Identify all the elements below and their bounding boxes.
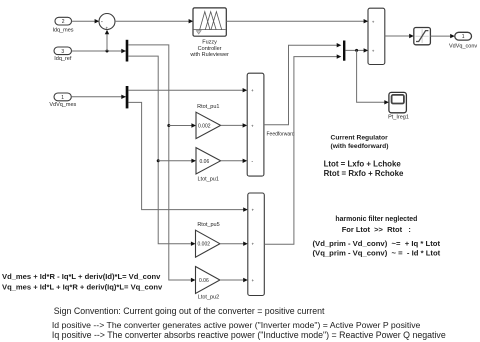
svg-text:0.06: 0.06 xyxy=(200,159,210,165)
wire bottom sum out to mux in2 xyxy=(264,54,341,244)
scope Pt_Ireg1 xyxy=(388,92,409,120)
svg-text:VdVq_conv: VdVq_conv xyxy=(449,43,477,49)
wire fuzzy to sum S2 xyxy=(226,19,368,23)
wire D1 out1 down to gain Ltot_pu2, junction to gain Rtot_pu1 xyxy=(128,45,196,282)
svg-text:Current Regulator: Current Regulator xyxy=(331,134,389,141)
wire gain Ltot_pu2 to bottom sum in3 xyxy=(220,278,248,282)
svg-text:Ltot = Lxfo + Lchoke: Ltot = Lxfo + Lchoke xyxy=(324,159,402,168)
svg-text:Vq_mes + Id*L + Iq*R + deriv(: Vq_mes + Id*L + Iq*R + deriv(Iq)*L= Vq_c… xyxy=(2,283,163,292)
svg-text:Rtot_pu1: Rtot_pu1 xyxy=(197,104,219,110)
svg-text:2: 2 xyxy=(62,19,65,25)
svg-text:Feedforward: Feedforward xyxy=(267,132,295,138)
gain Rtot_pu1 xyxy=(196,104,221,138)
svg-text:Pt_Ireg1: Pt_Ireg1 xyxy=(388,114,409,120)
svg-text:(Vq_prim - Vq_conv) ~ = - Id: (Vq_prim - Vq_conv) ~ = - Id * Ltot xyxy=(313,249,441,258)
svg-text:For Ltot >> Rtot :: For Ltot >> Rtot : xyxy=(342,225,411,234)
bottom sum block xyxy=(248,193,264,296)
inport 2 Idq_mes xyxy=(52,17,73,33)
svg-text:Iq positive --> The converter: Iq positive --> The converter absorbs re… xyxy=(52,330,446,340)
annotation sign convention xyxy=(52,306,446,340)
svg-text:(Vd_prim - Vd_conv) ~= + Iq: (Vd_prim - Vd_conv) ~= + Iq * Ltot xyxy=(313,239,441,248)
saturation block xyxy=(414,28,431,45)
svg-text:0.002: 0.002 xyxy=(198,242,211,248)
svg-text:+: + xyxy=(251,123,254,128)
wire D2 out2 down to bottom sum in1 xyxy=(128,102,247,211)
svg-text:-: - xyxy=(101,20,103,26)
svg-text:+: + xyxy=(372,48,375,53)
svg-text:with Ruleviewer: with Ruleviewer xyxy=(189,52,229,58)
wire gain Rtot_pu1 to feedforward sum in2 xyxy=(221,123,248,127)
demux D1 xyxy=(126,40,129,62)
svg-text:Ltot_pu1: Ltot_pu1 xyxy=(197,176,218,182)
wire D1 out2 down to gain Rtot_pu5, junction to gain Ltot_pu1 xyxy=(128,56,196,246)
annotation Vd Vq conv equations xyxy=(2,272,163,291)
svg-text:-: - xyxy=(251,159,253,165)
annotation current regulator xyxy=(331,134,389,150)
wire Idq_ref to demux D1 with branch up to sum xyxy=(72,30,126,54)
svg-text:+: + xyxy=(105,25,108,30)
svg-text:+: + xyxy=(251,88,254,93)
gain Ltot_pu2 xyxy=(196,267,220,301)
svg-text:harmonic filter neglected: harmonic filter neglected xyxy=(335,216,417,223)
svg-text:Idq_mes: Idq_mes xyxy=(52,28,73,34)
wire gain Ltot_pu1 to feedforward sum in3 xyxy=(221,159,248,163)
annotation Ltot Rtot definitions xyxy=(324,159,404,177)
outport 1 VdVq_conv xyxy=(449,32,477,49)
svg-text:Fuzzy: Fuzzy xyxy=(202,40,217,46)
svg-text:Rtot = Rxfo + Rchoke: Rtot = Rxfo + Rchoke xyxy=(324,169,404,178)
mux M1 xyxy=(343,41,345,61)
svg-text:Sign Convention: Current going: Sign Convention: Current going out of th… xyxy=(54,306,325,316)
svg-text:(with feedforward): (with feedforward) xyxy=(331,143,389,150)
fuzzy controller block xyxy=(189,8,229,58)
gain Ltot_pu1 xyxy=(196,148,221,183)
svg-text:+: + xyxy=(372,19,375,24)
svg-text:Controller: Controller xyxy=(198,46,222,52)
wire VdVq_mes to demux D2 xyxy=(71,95,126,99)
svg-text:+: + xyxy=(252,242,255,247)
wire feedforward sum out to mux in1 xyxy=(264,43,341,125)
wire sum to fuzzy xyxy=(115,19,193,23)
svg-text:Rtot_pu5: Rtot_pu5 xyxy=(197,222,219,228)
inport 1 VdVq_mes xyxy=(49,93,76,108)
svg-text:VdVq_mes: VdVq_mes xyxy=(49,102,76,108)
wire sum S2 to saturation xyxy=(385,34,414,38)
svg-text:+: + xyxy=(252,208,255,213)
inport 3 Idq_ref xyxy=(54,47,72,62)
svg-text:1: 1 xyxy=(61,95,64,101)
wire D2 out1 to feedforward sum in1 xyxy=(128,88,247,92)
sum junction S1 xyxy=(99,14,115,31)
svg-text:+: + xyxy=(252,278,255,283)
annotation Vd Vq prim equations xyxy=(313,239,441,258)
svg-text:1: 1 xyxy=(462,34,465,40)
svg-text:3: 3 xyxy=(61,49,64,55)
wire mux to sum S2 in2 with junction to scope xyxy=(345,48,389,104)
gain Rtot_pu5 xyxy=(196,222,220,257)
feedforward sum block xyxy=(247,73,295,176)
svg-text:Id positive --> The converter: Id positive --> The converter generates … xyxy=(52,320,421,330)
svg-text:Ltot_pu2: Ltot_pu2 xyxy=(198,295,219,301)
wire saturation to outport xyxy=(430,34,454,38)
svg-text:Idq_ref: Idq_ref xyxy=(54,56,72,62)
wire Idq_mes to sum xyxy=(72,19,100,23)
demux D2 xyxy=(126,86,129,108)
sum S2 block top right xyxy=(368,8,385,64)
wire gain Rtot_pu5 to bottom sum in2 xyxy=(220,242,248,246)
svg-text:0.06: 0.06 xyxy=(199,278,209,284)
annotation harmonic filter xyxy=(335,216,417,234)
svg-text:Vd_mes + Id*R - Iq*L + deriv(I: Vd_mes + Id*R - Iq*L + deriv(Id)*L= Vd_c… xyxy=(2,272,161,281)
svg-text:0.002: 0.002 xyxy=(198,123,211,129)
